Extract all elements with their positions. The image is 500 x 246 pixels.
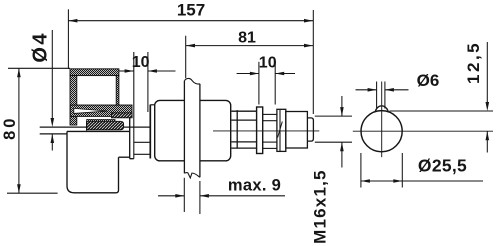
svg-text:max. 9: max. 9: [228, 177, 281, 195]
svg-text:10: 10: [259, 54, 277, 71]
svg-text:Ø25,5: Ø25,5: [418, 155, 467, 175]
svg-text:10: 10: [132, 54, 150, 71]
svg-text:157: 157: [177, 1, 205, 20]
svg-text:80: 80: [1, 116, 19, 140]
svg-text:Ø4: Ø4: [30, 31, 52, 62]
svg-text:81: 81: [238, 30, 256, 47]
svg-text:12,5: 12,5: [464, 41, 483, 84]
svg-text:M16x1,5: M16x1,5: [311, 169, 330, 244]
svg-text:Ø6: Ø6: [417, 71, 440, 90]
